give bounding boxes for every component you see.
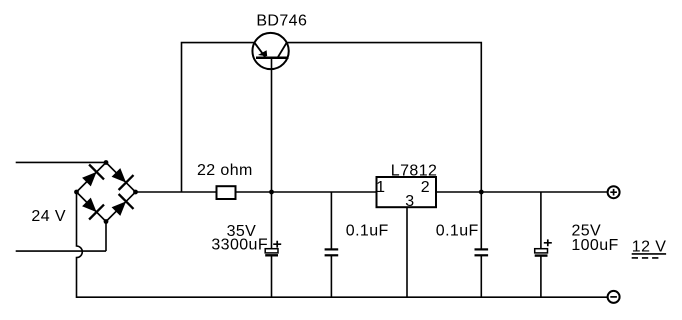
diode D1 (bridge left-top arm): [77, 163, 107, 193]
diode D3 (bridge left-bottom arm): [77, 192, 107, 222]
svg-text:12 V: 12 V: [632, 239, 667, 256]
wire: collector loop (transistor right, down to rail junction): [287, 43, 482, 192]
wire: C2 bottom lead: [330, 255, 332, 297]
wire: C4 bottom lead: [540, 256, 542, 298]
12V DC symbol dashed line: [632, 257, 661, 259]
capacitor C1 3300uF 35V electrolytic: [265, 249, 278, 256]
node: bridge bottom (AC): [104, 219, 109, 224]
wire: bottom AC input stub: [16, 250, 106, 252]
capacitor C2 0.1uF: [325, 249, 339, 255]
junction: collector / rail / C3: [479, 190, 484, 195]
wire: top AC input stub: [16, 161, 106, 163]
capacitor C3 0.1uF: [475, 249, 489, 255]
svg-text:22 ohm: 22 ohm: [197, 162, 253, 179]
svg-text:BD746: BD746: [256, 13, 307, 30]
svg-text:L7812: L7812: [391, 162, 438, 179]
svg-text:3300uF: 3300uF: [211, 236, 268, 253]
svg-text:0.1uF: 0.1uF: [346, 223, 389, 240]
wire: C1 bottom lead: [271, 255, 273, 297]
wire: bottom AC riser to bridge bottom node: [105, 222, 107, 252]
svg-text:0.1uF: 0.1uF: [436, 223, 479, 240]
resistor R1 22 ohm: [217, 186, 236, 199]
svg-text:2: 2: [421, 179, 430, 196]
wire: emitter loop (rail up and right to transistor): [182, 43, 255, 192]
svg-text:24 V: 24 V: [31, 208, 66, 225]
diode D2 (bridge top-right arm): [106, 163, 136, 193]
wire: base lead down through rail to C1: [271, 58, 273, 249]
transistor Q1 BD746 (PNP pass transistor): [252, 33, 288, 69]
wire: C2 top lead: [330, 192, 332, 249]
C4 polarity +: [544, 239, 552, 246]
node: bridge left (-): [74, 190, 79, 195]
terminal: - output: [608, 291, 620, 303]
diode D4 (bridge bottom-right arm): [106, 192, 136, 222]
junction: base / rail / C1: [269, 190, 274, 195]
12V DC symbol solid line: [632, 253, 666, 255]
capacitor C4 100uF 25V electrolytic: [535, 249, 548, 256]
terminal: + output: [608, 186, 620, 198]
svg-text:100uF: 100uF: [571, 237, 618, 254]
wire: C4 top lead: [540, 192, 542, 249]
wire: negative rail (bridge left node, hop over AC wire, bottom rail): [77, 192, 608, 297]
regulator U1 L7812: [377, 177, 437, 207]
wire: main positive rail: [136, 191, 608, 193]
node: bridge top (AC): [104, 160, 109, 165]
svg-text:1: 1: [376, 179, 385, 196]
C1 polarity +: [273, 241, 281, 248]
node: bridge right (+): [133, 190, 138, 195]
wire: pin 3 (ground) to bottom rail: [406, 207, 408, 297]
wire: C3 bottom lead: [480, 255, 482, 297]
wire: C3 top lead below junction: [480, 192, 482, 249]
